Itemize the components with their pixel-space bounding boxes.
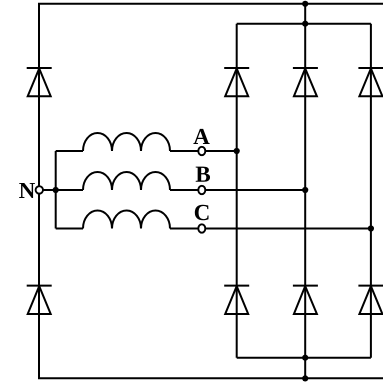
- wire terminal B to bridge branch 2: [205, 189, 306, 191]
- diode D5 (branch 3 upper): [358, 68, 383, 96]
- wire inductor LA to terminal A: [170, 150, 199, 152]
- junction dot top outer / branch 2: [302, 1, 308, 7]
- wire bottom outer bus: [38, 377, 383, 379]
- inductor LC: [83, 211, 170, 229]
- junction dot phase C / branch 3: [368, 225, 374, 231]
- junction dot bridge top / branch 2: [302, 21, 308, 27]
- diode D3 (branch 1 upper): [224, 68, 249, 96]
- wire bridge branch 2 vertical (DC link): [304, 4, 306, 379]
- junction dot phase B / branch 2: [302, 187, 308, 193]
- wire bridge bottom bus: [237, 357, 371, 359]
- junction dot phase A / branch 1: [234, 148, 240, 154]
- node C terminal circle: [198, 224, 205, 232]
- diode D7 (branch 2 lower): [293, 286, 318, 314]
- wire row A stub: [56, 150, 83, 152]
- wire inductor LB to terminal B: [170, 189, 199, 191]
- diode D2 (lower left): [27, 286, 52, 314]
- inductor LB: [83, 172, 170, 190]
- wire bridge branch 3 vertical: [370, 24, 372, 358]
- junction dot bridge bottom / branch 2: [302, 355, 308, 361]
- wire row C stub: [56, 228, 83, 230]
- wire bridge branch 1 vertical: [236, 24, 238, 358]
- wire terminal A to bridge branch 1: [205, 150, 237, 152]
- junction dot neutral bus: [53, 187, 59, 193]
- inductor LA: [83, 133, 170, 151]
- wire left rail: [38, 4, 40, 379]
- wire bridge top bus: [237, 23, 371, 25]
- wire neutral bus vertical: [55, 151, 57, 229]
- diode D8 (branch 3 lower): [358, 286, 383, 314]
- node A terminal circle: [198, 147, 205, 155]
- label A: [193, 129, 209, 144]
- label B: [196, 167, 210, 182]
- wire N to bus junction and inductor B input: [44, 189, 84, 191]
- junction dot bottom outer / branch 2: [302, 375, 308, 381]
- wire inductor LC to terminal C: [170, 228, 199, 230]
- diode D6 (branch 1 lower): [224, 286, 249, 314]
- diode D1 (upper left, anode bottom, cathode bar top): [27, 68, 52, 96]
- label N: [19, 183, 35, 198]
- diode D4 (branch 2 upper): [293, 68, 318, 96]
- wire top outer bus: [38, 3, 383, 5]
- label C: [195, 205, 209, 220]
- wire terminal C to bridge branch 3: [205, 228, 371, 230]
- node B terminal circle: [198, 186, 205, 194]
- node N terminal circle: [36, 186, 43, 193]
